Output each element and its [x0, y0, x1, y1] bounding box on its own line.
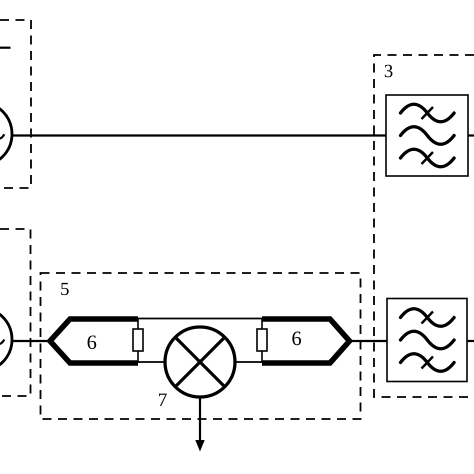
- label 7: [159, 394, 167, 406]
- wire: inner vertical (right): [261, 319, 263, 364]
- mixer 7: [165, 327, 235, 397]
- resistor (left): [133, 329, 143, 351]
- wire: bottom oscillator to delay line: [13, 340, 50, 342]
- wire: bottom link through mixer: [138, 361, 262, 363]
- dashed enclosure box (right, cut off at right edge): [374, 55, 474, 397]
- dashed module box 5: [41, 273, 361, 419]
- label 5: [61, 283, 68, 295]
- wire: inner vertical (left): [137, 319, 139, 364]
- band-pass filter (top): [386, 95, 468, 176]
- oscillator (top, RF source, cut off): [0, 102, 12, 166]
- wire: filter 3 output (cut off at right edge): [468, 134, 474, 136]
- oscillator (bottom, LO source, cut off): [0, 308, 12, 372]
- wire: top oscillator to filter 3: [12, 134, 386, 136]
- wire: right delay line to lower filter: [349, 340, 388, 342]
- wire: lower filter output (cut off at right edge): [467, 340, 474, 342]
- delay line 6 (right, thick hexagon): [262, 319, 350, 363]
- label 6 (left): [88, 335, 97, 349]
- wire: top link between delay lines: [138, 318, 262, 320]
- label 3: [385, 65, 393, 77]
- stub wire (cut off at left edge): [0, 47, 11, 49]
- resistor (right): [257, 329, 267, 351]
- IF output arrow: [195, 397, 204, 452]
- delay line 6 (left, thick hexagon): [50, 319, 138, 363]
- band-pass filter (bottom): [387, 299, 467, 382]
- label 6 (right): [292, 332, 301, 346]
- dashed enclosure box (bottom-left, cut off at left edge): [0, 229, 31, 396]
- dashed enclosure box (top-left, cut off at left edge): [0, 20, 31, 188]
